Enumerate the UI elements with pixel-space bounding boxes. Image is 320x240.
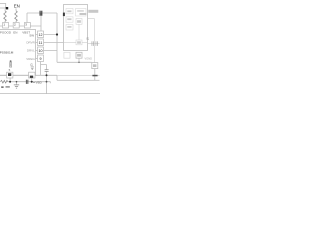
svg-text:PGOOD: PGOOD [0, 30, 12, 34]
svg-text:VREG: VREG [26, 57, 35, 61]
svg-text:DRVL: DRVL [27, 48, 35, 52]
svg-text:PS9301M: PS9301M [0, 50, 14, 54]
svg-text:VBD: VBD [36, 81, 43, 85]
svg-text:11: 11 [39, 41, 43, 45]
svg-text:12: 12 [39, 33, 43, 37]
svg-text:10: 10 [39, 49, 43, 53]
svg-text:SW: SW [29, 33, 34, 37]
svg-text:DRVR: DRVR [26, 40, 35, 44]
svg-text:S: S [86, 36, 89, 41]
svg-text:EN: EN [13, 30, 17, 34]
svg-text:EN: EN [14, 4, 20, 9]
svg-text:VGND: VGND [85, 56, 93, 60]
svg-text:9: 9 [40, 57, 42, 61]
